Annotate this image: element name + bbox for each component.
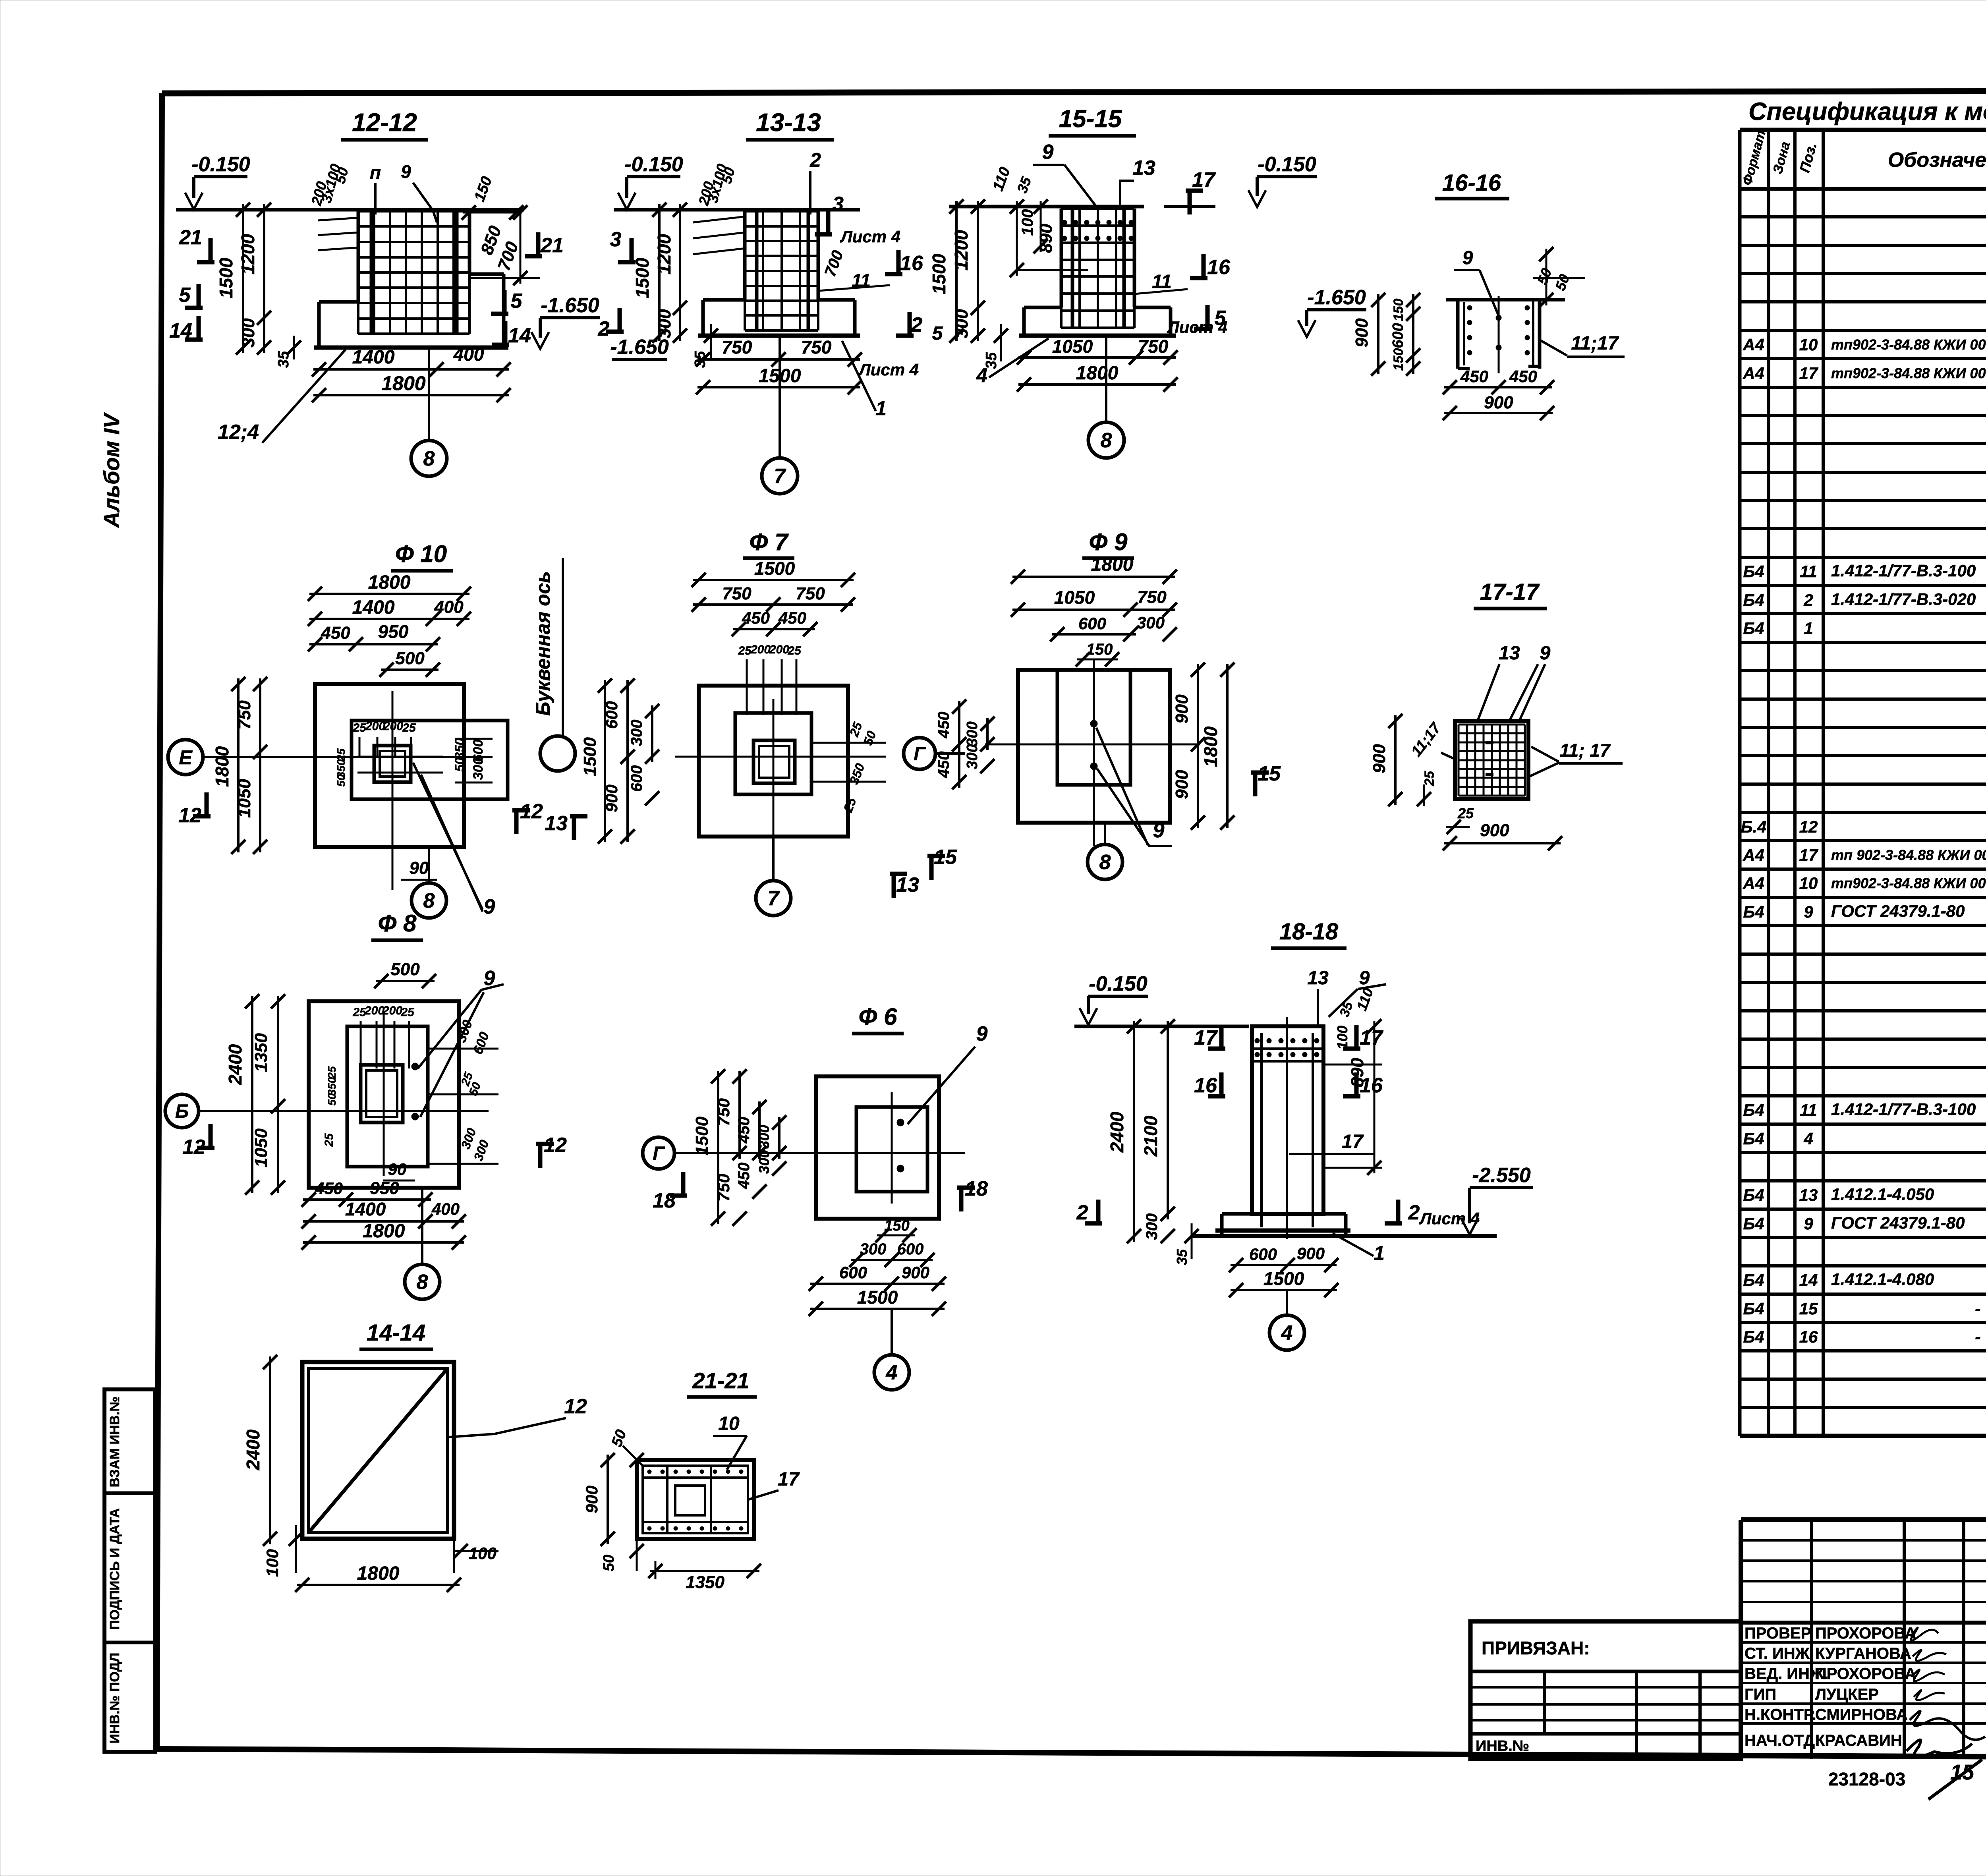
plan F8 label 90 bbox=[383, 1160, 415, 1180]
svg-text:-0.150: -0.150 bbox=[1089, 972, 1148, 995]
section 15-15 label 9 bbox=[1033, 141, 1096, 207]
svg-text:900: 900 bbox=[902, 1263, 929, 1282]
svg-text:1400: 1400 bbox=[352, 597, 395, 618]
svg-text:Буквенная ось: Буквенная ось bbox=[532, 571, 554, 716]
svg-text:750: 750 bbox=[722, 337, 752, 357]
section 13-13 right labels bbox=[815, 193, 943, 419]
svg-text:23128-03: 23128-03 bbox=[1828, 1769, 1905, 1789]
svg-text:7: 7 bbox=[768, 887, 780, 910]
section 13-13 cut mark 3 bbox=[630, 238, 634, 262]
section 17-17 title bbox=[1474, 579, 1547, 609]
plan F6 anchor dots bbox=[897, 1119, 904, 1172]
section 15-15 title bbox=[1049, 105, 1136, 136]
svg-text:1: 1 bbox=[1804, 619, 1813, 638]
section 15-15 cut mark 5 bbox=[1206, 305, 1210, 329]
svg-text:12;4: 12;4 bbox=[218, 421, 259, 444]
section 18-18 note 2 лист4 bbox=[1385, 1200, 1480, 1228]
svg-text:4: 4 bbox=[1803, 1129, 1813, 1148]
section 12-12 title bbox=[341, 108, 428, 140]
svg-text:100: 100 bbox=[1334, 1026, 1350, 1049]
svg-text:1500: 1500 bbox=[580, 737, 600, 776]
svg-text:СМИРНОВА: СМИРНОВА bbox=[1815, 1706, 1908, 1723]
plan F6 outer rect bbox=[816, 1076, 939, 1219]
svg-text:16: 16 bbox=[1194, 1074, 1217, 1097]
svg-text:10: 10 bbox=[718, 1413, 740, 1434]
section 18-18 labels 13 9 bbox=[1307, 968, 1386, 1027]
section 15-15 label 13 bbox=[1120, 156, 1155, 207]
specification table headers bbox=[1740, 129, 1986, 187]
section 17-17 bottom dims bbox=[1443, 805, 1562, 850]
plan F8 small dims 25 200 200 25 bbox=[323, 1004, 415, 1147]
svg-text:ИНВ.№: ИНВ.№ bbox=[1476, 1738, 1529, 1754]
section 13-13 grid bubble 7 bbox=[762, 336, 798, 494]
svg-text:Н.КОНТР.: Н.КОНТР. bbox=[1745, 1706, 1816, 1723]
svg-text:Б4: Б4 bbox=[1743, 1186, 1764, 1204]
svg-text:1.412-1/77-В.3-100: 1.412-1/77-В.3-100 bbox=[1831, 561, 1976, 580]
svg-text:11: 11 bbox=[1152, 271, 1172, 292]
svg-text:900: 900 bbox=[1297, 1244, 1325, 1263]
section 15-15 bottom dims bbox=[1017, 336, 1178, 392]
svg-text:50: 50 bbox=[326, 1093, 338, 1106]
plan F9 title bbox=[1082, 529, 1134, 558]
svg-text:17: 17 bbox=[1799, 364, 1818, 383]
svg-text:1800: 1800 bbox=[212, 746, 232, 787]
section 12-12 grid bubble 8 bbox=[411, 348, 447, 476]
svg-text:1500: 1500 bbox=[216, 257, 236, 298]
svg-text:15: 15 bbox=[1258, 762, 1281, 785]
svg-text:СТ. ИНЖ.: СТ. ИНЖ. bbox=[1745, 1645, 1814, 1662]
svg-text:17: 17 bbox=[1799, 846, 1818, 864]
svg-text:Б.4: Б.4 bbox=[1741, 817, 1767, 836]
svg-text:600: 600 bbox=[1249, 1245, 1277, 1264]
section 18-18 left dims bbox=[1107, 1019, 1199, 1265]
svg-text:1.412-1/77-В.3-100: 1.412-1/77-В.3-100 bbox=[1831, 1100, 1976, 1119]
svg-text:450: 450 bbox=[935, 712, 952, 739]
svg-text:1500: 1500 bbox=[929, 253, 949, 294]
svg-text:-2.550: -2.550 bbox=[1472, 1164, 1531, 1187]
section 12-12 cut mark 14 bbox=[197, 316, 201, 340]
section 16-16 title bbox=[1435, 170, 1509, 199]
svg-text:900: 900 bbox=[1172, 694, 1192, 724]
svg-text:Ф 6: Ф 6 bbox=[859, 1003, 898, 1030]
section 17-17 left dims bbox=[1370, 714, 1456, 806]
svg-text:1500: 1500 bbox=[1263, 1268, 1304, 1289]
svg-text:4: 4 bbox=[886, 1361, 898, 1384]
spec rows F7 block bbox=[1743, 475, 1986, 723]
section 12-12 cut mark 21 bbox=[209, 238, 213, 262]
section 15-15 footing outline bbox=[1019, 209, 1176, 336]
svg-text:А4: А4 bbox=[1743, 874, 1764, 893]
plan F8 cut mark 12 left bbox=[209, 1124, 213, 1148]
svg-text:90: 90 bbox=[410, 858, 429, 878]
privyazan block bbox=[1470, 1621, 1741, 1759]
section 12-12 footing outline bbox=[314, 211, 508, 348]
section 16-16 left dims bbox=[1352, 293, 1420, 376]
plan F6 title bbox=[852, 1003, 904, 1034]
svg-text:Б4: Б4 bbox=[1743, 619, 1764, 638]
svg-text:1800: 1800 bbox=[1076, 363, 1119, 384]
section 13-13 footing outline bbox=[698, 211, 860, 336]
plan F8 label 9 bbox=[418, 967, 504, 1117]
svg-text:ПРИВЯЗАН:: ПРИВЯЗАН: bbox=[1482, 1638, 1590, 1658]
svg-text:450: 450 bbox=[321, 623, 350, 643]
section 18-18 title bbox=[1271, 919, 1347, 948]
svg-text:450: 450 bbox=[935, 752, 952, 779]
svg-text:500: 500 bbox=[390, 960, 420, 979]
svg-text:-1.650: -1.650 bbox=[541, 294, 599, 317]
svg-text:300: 300 bbox=[756, 1125, 772, 1149]
svg-text:тп902-3-84.88 КЖИ 00.00.04.: тп902-3-84.88 КЖИ 00.00.04.00 bbox=[1831, 336, 1986, 353]
svg-text:1.412.1-4.050: 1.412.1-4.050 bbox=[1831, 1185, 1934, 1204]
section 15-15 ground line bbox=[949, 205, 1215, 209]
svg-text:2: 2 bbox=[809, 149, 821, 171]
svg-text:25: 25 bbox=[400, 1006, 415, 1019]
svg-text:900: 900 bbox=[1172, 770, 1192, 799]
svg-text:10: 10 bbox=[1799, 874, 1818, 893]
svg-text:НАЧ.ОТД: НАЧ.ОТД bbox=[1745, 1732, 1815, 1749]
plan F9 cut mark 15 bbox=[1253, 773, 1258, 796]
svg-text:А4: А4 bbox=[1743, 335, 1764, 354]
svg-text:300: 300 bbox=[964, 744, 981, 769]
svg-text:25: 25 bbox=[352, 721, 367, 734]
svg-text:2400: 2400 bbox=[1107, 1111, 1127, 1153]
section 15-15 rebar cage bbox=[1061, 209, 1134, 328]
svg-text:1200: 1200 bbox=[951, 230, 972, 270]
svg-text:16: 16 bbox=[1799, 1327, 1818, 1346]
svg-text:Ф 9: Ф 9 bbox=[1089, 529, 1128, 555]
svg-text:750: 750 bbox=[1137, 587, 1167, 607]
svg-text:950: 950 bbox=[378, 621, 409, 642]
svg-text:1.412-1/77-В.3-020: 1.412-1/77-В.3-020 bbox=[1831, 590, 1976, 609]
section 13-13 ground line bbox=[614, 208, 860, 212]
svg-text:Обозначение: Обозначение bbox=[1888, 149, 1986, 172]
svg-text:Б4: Б4 bbox=[1743, 1299, 1764, 1318]
svg-text:13: 13 bbox=[1132, 156, 1155, 180]
plan F6 inner rect bbox=[856, 1107, 927, 1192]
section 16-16 bottom dims bbox=[1443, 367, 1554, 420]
section 14-14 left dim 2400 bbox=[243, 1355, 277, 1546]
svg-text:1800: 1800 bbox=[368, 572, 411, 593]
section 21-21 title bbox=[687, 1368, 757, 1397]
svg-text:Б4: Б4 bbox=[1743, 1327, 1764, 1346]
svg-text:12: 12 bbox=[564, 1395, 587, 1418]
plan F8 anchor mesh square bbox=[361, 1065, 403, 1123]
svg-text:1350: 1350 bbox=[686, 1573, 724, 1592]
plan F10 top dims bbox=[308, 572, 471, 677]
svg-text:150: 150 bbox=[1391, 299, 1406, 321]
section 16-16 top right dims 50 50 bbox=[1533, 247, 1585, 307]
svg-text:200: 200 bbox=[750, 643, 771, 656]
svg-text:1.412.1-4.080: 1.412.1-4.080 bbox=[1831, 1270, 1934, 1289]
svg-text:750: 750 bbox=[714, 1098, 733, 1126]
plan F8 axis bubble B bbox=[165, 1094, 309, 1128]
svg-text:150: 150 bbox=[1391, 348, 1406, 371]
svg-text:Лист 4: Лист 4 bbox=[1167, 318, 1227, 336]
spec rows F8 block bbox=[1741, 759, 1986, 1007]
svg-text:А4: А4 bbox=[1743, 846, 1764, 864]
section 18-18 label 17 mid bbox=[1289, 1131, 1374, 1154]
svg-text:ГОСТ 24379.1-80: ГОСТ 24379.1-80 bbox=[1831, 1213, 1965, 1232]
section 18-18 column bbox=[1252, 1017, 1323, 1239]
svg-text:15: 15 bbox=[934, 846, 957, 869]
svg-text:17: 17 bbox=[1194, 1026, 1218, 1049]
section 21-21 label 10 bbox=[713, 1413, 747, 1470]
plan F9 left dims bbox=[935, 699, 995, 789]
svg-text:35: 35 bbox=[1174, 1249, 1190, 1265]
section 18-18 bottom dims bbox=[1229, 1244, 1339, 1297]
plan F9 grid bubble 8 bbox=[1088, 823, 1122, 879]
svg-text:4: 4 bbox=[1281, 1322, 1293, 1345]
plan F7 inner square bbox=[735, 713, 811, 794]
svg-text:1050: 1050 bbox=[251, 1128, 271, 1167]
svg-text:2: 2 bbox=[1408, 1201, 1420, 1224]
plan F10 label 9 and 90 bbox=[401, 763, 495, 918]
section 12-12 left depth dims bbox=[216, 203, 301, 368]
svg-text:1800: 1800 bbox=[1200, 726, 1221, 767]
svg-text:500: 500 bbox=[395, 649, 425, 668]
svg-text:- 02: - 02 bbox=[1975, 1327, 1986, 1347]
svg-text:18: 18 bbox=[965, 1177, 988, 1200]
svg-text:17: 17 bbox=[1192, 168, 1216, 191]
svg-text:11;17: 11;17 bbox=[1571, 333, 1619, 354]
svg-text:2: 2 bbox=[598, 317, 610, 340]
svg-text:1200: 1200 bbox=[238, 234, 258, 274]
svg-text:11: 11 bbox=[1800, 1101, 1817, 1119]
plan F8 left dims bbox=[225, 994, 285, 1195]
svg-text:9: 9 bbox=[1042, 141, 1054, 164]
svg-text:10: 10 bbox=[1799, 335, 1818, 354]
plan F8 grid bubble 8 bbox=[405, 1188, 440, 1299]
svg-text:-0.150: -0.150 bbox=[624, 153, 683, 176]
plan F10 left dims bbox=[212, 677, 267, 854]
section 18-18 cut marks bbox=[1076, 1025, 1383, 1224]
svg-text:1350: 1350 bbox=[251, 1033, 271, 1072]
svg-text:1050: 1050 bbox=[1052, 336, 1093, 357]
svg-text:14: 14 bbox=[1799, 1271, 1818, 1289]
svg-text:8: 8 bbox=[423, 889, 435, 912]
section 12-12 bottom dims bbox=[312, 344, 511, 402]
album label bbox=[99, 412, 124, 529]
svg-text:Г: Г bbox=[914, 744, 926, 765]
svg-text:тп 902-3-84.88 КЖИ 0000.05.00: тп 902-3-84.88 КЖИ 0000.05.00 bbox=[1831, 847, 1986, 863]
section 15-15 cut mark 17 bbox=[1188, 191, 1192, 214]
svg-text:25: 25 bbox=[402, 721, 416, 734]
svg-text:21: 21 bbox=[540, 234, 564, 257]
svg-text:14: 14 bbox=[508, 324, 531, 347]
plan F6 left dims bbox=[692, 1069, 786, 1226]
plan F6 cut mark 18 right bbox=[959, 1188, 964, 1211]
svg-text:1: 1 bbox=[875, 397, 887, 419]
svg-text:14-14: 14-14 bbox=[367, 1320, 425, 1346]
svg-text:1500: 1500 bbox=[857, 1287, 898, 1308]
section 15-15 grid bubble 8 bbox=[1088, 336, 1124, 458]
svg-text:9: 9 bbox=[1540, 643, 1551, 664]
plan F10 cut mark 12 right bbox=[514, 810, 519, 834]
svg-text:350: 350 bbox=[452, 738, 467, 759]
svg-text:тп902-3-84.88 КЖИ 00.00.05.: тп902-3-84.88 КЖИ 00.00.05.00 bbox=[1831, 365, 1986, 381]
svg-text:900: 900 bbox=[1480, 821, 1509, 840]
plan F8 anchor dots bbox=[411, 1063, 419, 1120]
section 17-17 labels 13 9 bbox=[0, 0, 0, 0]
svg-text:1800: 1800 bbox=[357, 1563, 400, 1584]
plan F6 label 9 bbox=[908, 1022, 988, 1124]
svg-text:300: 300 bbox=[239, 318, 258, 348]
section 14-14 label 12 bbox=[449, 1395, 587, 1437]
svg-text:2400: 2400 bbox=[243, 1429, 263, 1470]
plan F10 grid bubble 8 bbox=[411, 847, 446, 918]
svg-text:25: 25 bbox=[323, 1133, 336, 1147]
plan F9 centerline bbox=[985, 744, 1200, 746]
svg-text:ПРОВЕР.: ПРОВЕР. bbox=[1745, 1625, 1813, 1642]
section 17-17 mesh square bbox=[1455, 721, 1528, 799]
svg-text:600: 600 bbox=[839, 1263, 867, 1282]
svg-text:300: 300 bbox=[1143, 1213, 1161, 1240]
section 14-14 title bbox=[359, 1320, 433, 1349]
svg-text:Г: Г bbox=[653, 1143, 665, 1164]
svg-text:5: 5 bbox=[511, 290, 523, 313]
svg-text:300: 300 bbox=[756, 1150, 772, 1174]
specification table grid bbox=[1740, 130, 1986, 1436]
svg-text:13: 13 bbox=[545, 812, 568, 835]
svg-text:150: 150 bbox=[1086, 641, 1113, 658]
svg-text:1800: 1800 bbox=[1091, 554, 1134, 575]
section 13-13 top rebar dims bbox=[693, 149, 821, 254]
svg-text:400: 400 bbox=[434, 597, 464, 617]
svg-text:8: 8 bbox=[417, 1271, 428, 1294]
svg-text:300: 300 bbox=[860, 1240, 887, 1258]
section 21-21 dims bbox=[582, 1428, 761, 1592]
plan F7 cut marks 13 15 bbox=[890, 846, 957, 898]
svg-text:9: 9 bbox=[1359, 968, 1370, 989]
svg-text:Б4: Б4 bbox=[1743, 1101, 1764, 1119]
svg-text:13: 13 bbox=[1799, 1186, 1818, 1204]
svg-text:Ф 8: Ф 8 bbox=[378, 910, 417, 937]
svg-text:400: 400 bbox=[431, 1200, 460, 1218]
svg-text:9: 9 bbox=[1804, 1214, 1813, 1233]
svg-text:8: 8 bbox=[423, 447, 435, 470]
svg-text:16: 16 bbox=[1207, 256, 1231, 279]
plan F7 title bbox=[743, 529, 794, 558]
plan F10 inner square bbox=[352, 721, 508, 799]
svg-text:13: 13 bbox=[1499, 643, 1520, 664]
plan F8 cut mark 12 right bbox=[538, 1144, 543, 1168]
axis bubble G bbox=[904, 738, 965, 769]
svg-text:9: 9 bbox=[401, 161, 411, 182]
section 12-12 rebar cage bbox=[358, 211, 469, 334]
letter axis label bbox=[532, 558, 575, 771]
section 12-12 right dims 150 850 700 bbox=[462, 174, 540, 285]
svg-text:1400: 1400 bbox=[352, 347, 395, 368]
section 13-13 rebar cage bbox=[745, 211, 818, 330]
svg-text:-0.150: -0.150 bbox=[191, 153, 250, 176]
svg-text:15: 15 bbox=[1799, 1299, 1818, 1318]
svg-text:600: 600 bbox=[1390, 323, 1406, 348]
svg-text:1500: 1500 bbox=[692, 1117, 712, 1155]
section 12-12 cut mark 5 right bbox=[502, 290, 507, 314]
svg-text:12-12: 12-12 bbox=[352, 108, 417, 137]
svg-text:Б4: Б4 bbox=[1743, 1214, 1764, 1233]
svg-text:1: 1 bbox=[1374, 1242, 1385, 1264]
svg-text:15-15: 15-15 bbox=[1059, 105, 1122, 133]
section 18-18 ground line bbox=[1074, 1025, 1249, 1028]
svg-text:12: 12 bbox=[1799, 817, 1818, 836]
svg-text:50: 50 bbox=[335, 774, 347, 787]
svg-text:-1.650: -1.650 bbox=[1307, 286, 1366, 309]
svg-text:2: 2 bbox=[911, 313, 923, 336]
svg-text:-0.150: -0.150 bbox=[1258, 153, 1316, 176]
svg-text:Ф 10: Ф 10 bbox=[395, 541, 447, 567]
svg-text:300: 300 bbox=[655, 309, 674, 338]
svg-text:12: 12 bbox=[520, 800, 543, 823]
section 18-18 label 1 bbox=[1333, 1233, 1385, 1264]
svg-text:450: 450 bbox=[1509, 367, 1537, 386]
svg-text:18: 18 bbox=[653, 1189, 676, 1212]
svg-text:Альбом IV: Альбом IV bbox=[99, 412, 124, 529]
plan F8 centerlines bbox=[286, 1013, 489, 1176]
svg-text:50: 50 bbox=[601, 1555, 617, 1571]
svg-text:13-13: 13-13 bbox=[756, 108, 821, 137]
section 14-14 panel bbox=[302, 1362, 454, 1539]
svg-text:Лист 4: Лист 4 bbox=[1419, 1209, 1480, 1228]
svg-text:7: 7 bbox=[774, 465, 786, 488]
svg-text:ВЗАМ ИНВ.№: ВЗАМ ИНВ.№ bbox=[107, 1397, 122, 1488]
svg-text:450: 450 bbox=[735, 1117, 753, 1144]
plan F10 outer square bbox=[315, 684, 464, 847]
section 15-15 dim box 890 bbox=[990, 165, 1088, 277]
svg-text:750: 750 bbox=[714, 1174, 733, 1202]
plan F8 outer rect bbox=[309, 1001, 459, 1188]
plan F10 anchor mesh square bbox=[357, 746, 443, 782]
svg-text:17: 17 bbox=[778, 1469, 800, 1490]
svg-text:900: 900 bbox=[1370, 744, 1389, 773]
svg-text:Спецификация к монолитным фун: Спецификация к монолитным фундаментам. bbox=[1748, 98, 1986, 126]
svg-text:ПОДПИСЬ И ДАТА: ПОДПИСЬ И ДАТА bbox=[107, 1508, 122, 1630]
svg-text:9: 9 bbox=[1153, 819, 1165, 842]
svg-text:16-16: 16-16 bbox=[1442, 170, 1501, 196]
section 12-12 cut mark 5 bbox=[197, 284, 201, 308]
svg-text:12: 12 bbox=[178, 804, 201, 827]
svg-text:25: 25 bbox=[787, 644, 802, 657]
left margin stamp column bbox=[104, 1389, 155, 1752]
plan F6 grid bubble 4 bbox=[874, 1309, 909, 1390]
section 15-15 cut mark 16 bbox=[1202, 254, 1206, 278]
section 13-13 title bbox=[746, 108, 834, 140]
spec rows F9 block bbox=[1743, 1014, 1986, 1233]
spec rows details block bbox=[1743, 1241, 1986, 1432]
svg-text:тп902-3-84.88 КЖИ 00.00.04.00: тп902-3-84.88 КЖИ 00.00.04.00 bbox=[1831, 875, 1986, 891]
section 18-18 footing bbox=[1192, 1214, 1497, 1236]
svg-text:300: 300 bbox=[1137, 613, 1165, 632]
svg-text:Б4: Б4 bbox=[1743, 591, 1764, 609]
svg-text:16: 16 bbox=[900, 252, 923, 275]
svg-text:950: 950 bbox=[370, 1179, 399, 1198]
svg-text:Е: Е bbox=[179, 746, 193, 769]
svg-text:ГИП: ГИП bbox=[1745, 1686, 1776, 1703]
svg-text:300: 300 bbox=[952, 309, 972, 338]
section 21-21 beam box bbox=[637, 1460, 754, 1539]
title block left grid bbox=[1741, 1520, 1986, 1759]
svg-text:3: 3 bbox=[833, 193, 844, 215]
plan F10 centerlines bbox=[315, 691, 493, 890]
svg-text:9: 9 bbox=[484, 895, 495, 918]
svg-text:А4: А4 bbox=[1743, 364, 1764, 383]
svg-text:900: 900 bbox=[1484, 393, 1513, 412]
svg-text:100: 100 bbox=[469, 1544, 496, 1563]
svg-text:9: 9 bbox=[1804, 902, 1813, 921]
svg-text:ПРОХОРОВА: ПРОХОРОВА bbox=[1815, 1665, 1916, 1683]
section 15-15 label 11 bbox=[1134, 271, 1188, 294]
svg-text:300: 300 bbox=[964, 721, 981, 746]
